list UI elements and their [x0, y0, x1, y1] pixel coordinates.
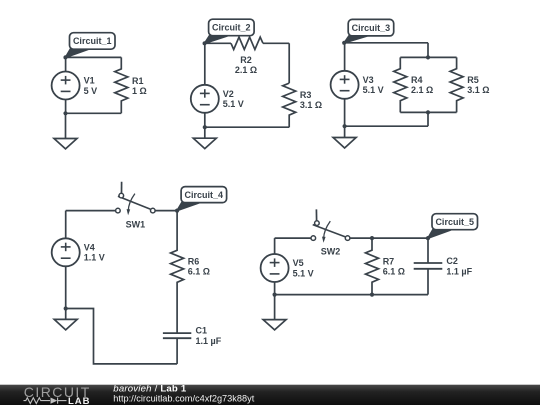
node A1 top-left circuit 1	[63, 55, 67, 59]
ground circuit 1	[54, 139, 77, 149]
wire C2 top lead	[427, 238, 429, 263]
label V1 value	[84, 76, 98, 96]
label R4 value	[411, 75, 433, 95]
wire SW2 to C2 node	[350, 237, 428, 239]
wire V5 bottom lead	[274, 282, 276, 295]
ground circuit 3	[333, 138, 356, 149]
svg-text:R7: R7	[383, 256, 395, 266]
svg-text:R3: R3	[300, 90, 312, 100]
label R5 value	[467, 75, 489, 95]
node bottom junction circuit 3	[426, 110, 430, 114]
svg-text:V2: V2	[223, 89, 234, 99]
label R6 value	[188, 256, 210, 276]
tag Circuit_5	[428, 214, 478, 238]
svg-text:5.1 V: 5.1 V	[223, 99, 244, 109]
label R3 value	[300, 90, 322, 110]
svg-text:C1: C1	[196, 326, 208, 336]
wire ground stem circuit 4	[65, 309, 67, 320]
tag Circuit_3	[344, 19, 394, 42]
wire V5 to SW2	[275, 237, 311, 239]
wire bottom drop circuit 3	[427, 112, 429, 126]
wire top-right segment circuit 2	[263, 42, 289, 44]
wire C2 bottom lead	[427, 269, 429, 295]
switch SW1	[116, 182, 156, 216]
resistor R7	[366, 238, 379, 295]
label R2 value	[235, 55, 257, 75]
ground circuit 5	[263, 320, 286, 330]
wire ground stem circuit 2	[204, 127, 206, 138]
tag Circuit_1	[66, 33, 116, 58]
footer bar	[0, 385, 540, 405]
svg-text:1.1 µF: 1.1 µF	[196, 336, 222, 346]
wire V3 bottom lead	[344, 99, 346, 126]
wire top-left segment circuit 2	[205, 42, 231, 44]
wire ground stem circuit 5	[274, 295, 276, 320]
capacitor C2	[414, 263, 443, 269]
voltage source V4	[52, 238, 80, 266]
wire V1 top lead	[65, 57, 67, 71]
wire bottom rail circuit 4	[66, 309, 177, 364]
capacitor C1	[163, 333, 191, 338]
svg-text:Circuit_2: Circuit_2	[212, 23, 251, 33]
node C2 top	[426, 236, 430, 240]
voltage source V1	[52, 72, 80, 100]
voltage source V5	[261, 254, 289, 282]
wire bottom bar parallel pair	[400, 111, 456, 113]
resistor R4	[394, 57, 407, 112]
svg-text:R1: R1	[132, 76, 144, 86]
svg-text:1.1 V: 1.1 V	[84, 253, 105, 263]
wire V4 bottom lead	[65, 266, 67, 308]
wire bottom rail circuit 5	[275, 294, 428, 296]
svg-text:Circuit_4: Circuit_4	[185, 190, 224, 200]
svg-text:1.1 µF: 1.1 µF	[446, 266, 472, 276]
node V5 bottom	[273, 293, 277, 297]
node R7 bottom	[370, 293, 374, 297]
node top-left circuit 2	[203, 41, 207, 45]
svg-text:3.1 Ω: 3.1 Ω	[300, 100, 322, 110]
svg-text:V3: V3	[363, 75, 374, 85]
label SW1	[126, 219, 146, 229]
label R7 value	[383, 256, 405, 276]
switch SW2	[311, 209, 350, 242]
wire V4 top lead up	[65, 211, 67, 239]
svg-text:5.1 V: 5.1 V	[293, 268, 314, 278]
svg-text:5.1 V: 5.1 V	[363, 85, 384, 95]
voltage source V3	[331, 71, 359, 99]
svg-text:Circuit_1: Circuit_1	[73, 36, 112, 46]
svg-text:R2: R2	[240, 55, 252, 65]
node SW1 output circuit 4	[175, 209, 179, 213]
svg-text:C2: C2	[446, 256, 458, 266]
wire ground stem circuit 3	[344, 126, 346, 137]
ground circuit 4	[54, 319, 77, 330]
resistor R1	[115, 57, 128, 113]
wire right vertical circuit 2	[288, 43, 290, 83]
label SW2	[321, 246, 341, 256]
svg-text:Circuit_3: Circuit_3	[352, 23, 391, 33]
resistor R6	[171, 211, 184, 334]
wire ground stem circuit 1	[65, 113, 67, 138]
svg-text:R6: R6	[188, 256, 200, 266]
node V2 bottom	[203, 125, 207, 129]
tag Circuit_2	[205, 19, 255, 43]
resistor R3	[283, 83, 296, 127]
label C2 value	[446, 256, 472, 276]
ground circuit 2	[193, 138, 216, 148]
node bottom circuit 1	[63, 111, 67, 115]
resistor R5	[450, 57, 463, 112]
voltage source V2	[191, 85, 219, 113]
wire V2 bottom lead	[204, 113, 206, 127]
logo resistor-diode squiggle	[24, 398, 67, 404]
svg-text:LAB: LAB	[68, 396, 91, 405]
node V4 bottom	[64, 306, 68, 310]
svg-text:6.1 Ω: 6.1 Ω	[383, 267, 405, 277]
svg-text:R5: R5	[467, 75, 479, 85]
wire top bar parallel pair	[400, 56, 456, 58]
svg-text:6.1 Ω: 6.1 Ω	[188, 267, 210, 277]
wire V2 top lead	[204, 43, 206, 85]
node top-left circuit 3	[342, 41, 346, 45]
svg-text:R4: R4	[411, 75, 423, 85]
label V3 value	[363, 75, 384, 95]
label C1 value	[196, 326, 222, 346]
tag Circuit_4	[177, 187, 227, 211]
wire bottom rail circuit 2	[205, 126, 289, 128]
label V2 value	[223, 89, 244, 109]
node R7 top	[370, 236, 374, 240]
svg-text:3.1 Ω: 3.1 Ω	[467, 85, 489, 95]
node V3 bottom	[343, 124, 347, 128]
wire bottom rail circuit 3	[345, 125, 428, 127]
wire V1 bottom lead	[65, 100, 67, 114]
wire C1 bottom lead	[176, 338, 178, 364]
wire V5 top lead up	[274, 238, 276, 254]
label V4 value	[84, 242, 105, 262]
wire top rail circuit 3	[344, 42, 428, 44]
svg-text:SW1: SW1	[126, 219, 146, 229]
svg-text:5 V: 5 V	[84, 86, 98, 96]
wire V4 to SW1	[66, 210, 116, 212]
svg-text:V5: V5	[293, 258, 304, 268]
wire bottom rail circuit 1	[66, 112, 122, 114]
wire top rail circuit 1	[66, 56, 122, 58]
resistor R2	[231, 37, 263, 49]
svg-text:V4: V4	[84, 242, 95, 252]
node top junction circuit 3	[426, 55, 430, 59]
svg-text:1 Ω: 1 Ω	[132, 86, 147, 96]
svg-text:2.1 Ω: 2.1 Ω	[235, 65, 257, 75]
svg-text:http://circuitlab.com/c4xf2g73: http://circuitlab.com/c4xf2g73k88yt	[113, 394, 254, 404]
svg-text:2.1 Ω: 2.1 Ω	[411, 85, 433, 95]
wire SW1 to node	[155, 210, 177, 212]
wire V3 top lead	[344, 43, 346, 71]
label V5 value	[293, 258, 314, 278]
label R1 value	[132, 76, 147, 96]
svg-text:SW2: SW2	[321, 246, 341, 256]
wire top drop circuit 3	[427, 43, 429, 58]
svg-text:V1: V1	[84, 76, 95, 86]
svg-text:Circuit_5: Circuit_5	[435, 217, 474, 227]
